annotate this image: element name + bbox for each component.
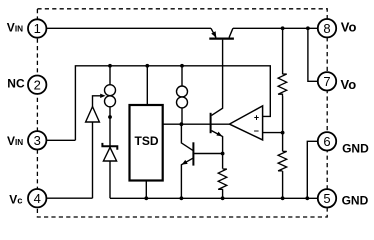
wire Q3 emitter <box>181 158 192 198</box>
wire pin3 to rail <box>46 139 75 141</box>
svg-text:GND: GND <box>342 194 369 208</box>
svg-text:7: 7 <box>323 74 330 89</box>
svg-text:Vo: Vo <box>341 77 357 92</box>
node top-divider <box>281 26 285 30</box>
TSD block <box>130 105 163 181</box>
node I1-zener <box>108 115 112 119</box>
svg-text:1: 1 <box>34 21 41 36</box>
transistor Q2 NPN driver <box>211 113 223 137</box>
arrow into I1 from Vc <box>100 94 105 98</box>
node gnd-pin6 <box>305 196 309 200</box>
resistor R3 Q2 emitter <box>218 169 227 190</box>
wire Q3 base <box>194 153 223 155</box>
zener diode D1 <box>102 143 117 161</box>
pin 5 <box>318 189 336 207</box>
wire current source I2 column <box>181 66 183 124</box>
wire pin6 branch <box>307 141 318 198</box>
wire Vc control arrow line <box>93 96 102 198</box>
svg-text:TSD: TSD <box>135 134 159 148</box>
wire pin7 branch <box>308 28 318 81</box>
svg-text:+: + <box>254 112 259 122</box>
resistor R1 upper feedback <box>278 74 287 96</box>
pin 2 <box>28 76 46 94</box>
svg-text:2: 2 <box>34 77 41 92</box>
svg-text:Vc: Vc <box>9 193 22 207</box>
node gnd-TSD <box>144 196 148 200</box>
node rail-I2 <box>180 64 184 68</box>
wire Q1 collector to pin8 <box>233 27 318 29</box>
svg-text:GND: GND <box>342 141 369 155</box>
svg-text:6: 6 <box>323 134 330 149</box>
wire Q3 collector <box>181 124 192 150</box>
node gnd-R3 <box>221 196 225 200</box>
transistor Q1 PNP pass <box>209 28 234 38</box>
arrow symbol on Vc line <box>86 107 100 122</box>
svg-text:−: − <box>254 126 259 136</box>
wire op-amp minus input to divider <box>263 132 283 134</box>
pin 1 <box>28 19 46 37</box>
resistor R2 lower feedback <box>278 151 287 171</box>
node TSD out / I2 / Q3 collector <box>180 122 184 126</box>
node gnd-R2 <box>281 196 285 200</box>
wire inner VIN rail with ends down to pin3 and op-amp + input <box>75 66 270 141</box>
node minus input tap <box>281 131 285 135</box>
svg-text:5: 5 <box>323 191 330 206</box>
wire feedback divider column top <box>282 28 284 74</box>
wire TSD output to Q2 base and op-amp output <box>163 123 230 125</box>
current source I1 <box>105 85 116 107</box>
wire Q2 emitter column <box>212 131 223 169</box>
pin 7 <box>318 72 336 90</box>
wire current source I1 column <box>109 66 111 199</box>
svg-text:8: 8 <box>323 21 330 36</box>
wire Q1 base / Q2 collector column <box>212 40 223 116</box>
node rail-TSD <box>145 64 149 68</box>
node Q3 base / Q2 emitter <box>221 152 225 156</box>
node rail-I1 <box>108 64 112 68</box>
op-amp error amplifier <box>229 106 262 140</box>
svg-text:3: 3 <box>34 133 41 148</box>
node gnd-Q3 <box>180 196 184 200</box>
svg-text:Vo: Vo <box>341 20 357 35</box>
wire ground rail <box>110 197 318 199</box>
wire VIN top rail from pin1 to Q1 emitter <box>46 27 211 29</box>
node top-pin7 <box>306 26 310 30</box>
pin 6 <box>318 132 336 150</box>
pin circles <box>28 19 336 208</box>
transistor Q3 NPN <box>182 142 194 165</box>
pin 3 <box>28 131 46 149</box>
wire pin4 Vc <box>47 197 93 199</box>
svg-text:NC: NC <box>7 77 25 91</box>
dashed package border <box>37 9 327 217</box>
wire Q2 emitter resistor to ground <box>222 190 224 198</box>
wire feedback divider column bottom <box>282 171 284 198</box>
pin 4 <box>28 189 46 207</box>
wire TSD bottom <box>145 181 147 199</box>
wire feedback divider column middle <box>282 96 284 151</box>
wire TSD top <box>146 66 148 105</box>
pin 8 <box>318 19 336 37</box>
svg-text:4: 4 <box>34 191 41 206</box>
current source I2 <box>177 86 188 108</box>
